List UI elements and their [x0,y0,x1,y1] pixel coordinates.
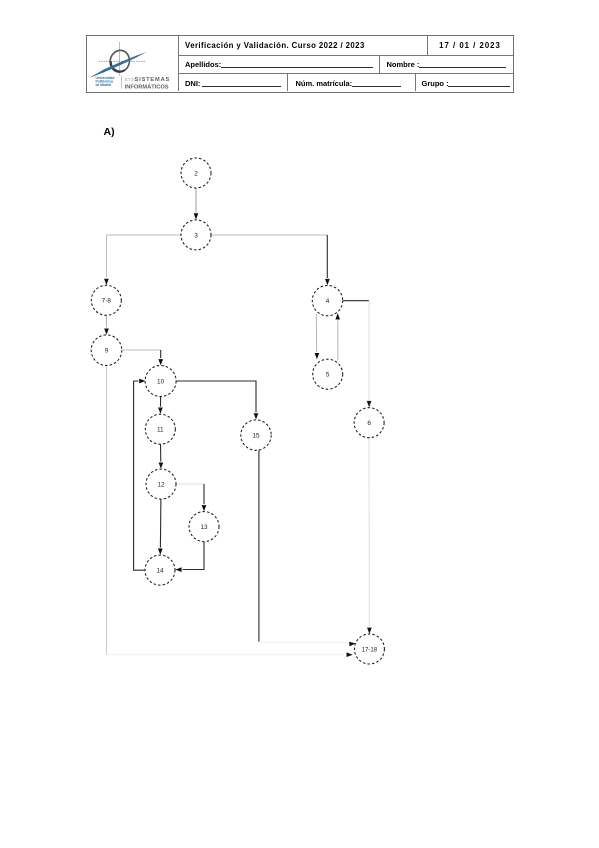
Num matricula blank line [352,86,401,87]
logo [86,35,179,92]
edge 10 to 11 [158,397,163,414]
header row2 divider before Nombre [379,55,380,74]
svg-text:4: 4 [326,298,330,305]
svg-text:5: 5 [326,372,330,379]
edge 5 to 4 [335,313,340,360]
svg-text:10: 10 [157,378,165,385]
node 17-18 [354,634,384,664]
node 11 [145,414,175,444]
node 14 [145,555,175,585]
edge 11 to 12 [159,444,164,469]
svg-text:13: 13 [200,524,208,531]
edge 3 to 7-8 [104,235,181,285]
svg-text:7-8: 7-8 [102,298,112,305]
Grupo label [422,79,449,88]
edge 9 to 17-18 [107,366,353,657]
header table row divider 2 [179,73,513,74]
svg-text:2: 2 [194,170,198,177]
node 3 [181,220,211,250]
edge 4 to 6 [343,301,372,408]
node 10 [145,366,176,397]
logo blue swoosh [91,52,147,78]
node 5 [313,359,343,389]
svg-text:3: 3 [194,232,198,239]
logo separator line [121,76,123,89]
node 6 [354,408,384,438]
header table column divider (logo | content) [178,36,179,91]
date text [427,41,513,50]
Nombre blank line [419,67,506,68]
edge 15 to 17-18 [259,450,356,646]
Grupo blank line [448,86,510,87]
edge 6 to 17-18 [367,438,372,634]
edge 13 to 14 [175,542,204,572]
edge 9 to 10 [122,350,163,365]
header row3 divider before Num matricula [287,74,288,91]
svg-text:12: 12 [157,482,165,489]
header row3 divider before Grupo [415,74,416,91]
DNI blank line [202,86,281,87]
svg-text:11: 11 [157,427,164,434]
edge 2 to 3 [194,188,199,219]
header table row divider 1 [179,55,513,56]
edge 12 to 14 [158,499,163,555]
svg-text:14: 14 [156,568,164,575]
Num matricula label [296,79,353,88]
header row1 divider before date [427,36,428,55]
header table outer border [86,35,514,93]
node 4 [312,285,342,315]
node 2 [181,158,211,188]
edge 3 to 4 [211,235,330,285]
edge 12 to 13 [176,484,206,511]
Apellidos label [185,60,221,69]
Nombre label [387,60,420,69]
edge 7-8 to 9 [104,315,109,334]
logo ring [108,48,132,74]
svg-text:9: 9 [105,348,109,355]
edge 10 to 15 [176,381,258,420]
node 15 [241,420,271,450]
logo crosshair horizontal ruled line [99,60,146,62]
node 7-8 [91,285,121,315]
svg-text:15: 15 [252,433,260,440]
Apellidos blank line [221,67,373,68]
title text [185,41,365,50]
logo crosshair vertical line [119,42,121,76]
node 12 [146,469,176,499]
DNI label [185,79,200,88]
svg-text:17-18: 17-18 [362,647,378,653]
section label A) [104,126,115,138]
node 13 [189,512,219,542]
edge 14 to 10 loop [134,379,146,571]
edge 4 to 5 [315,314,320,360]
node 9 [91,335,122,366]
svg-text:6: 6 [367,420,371,427]
